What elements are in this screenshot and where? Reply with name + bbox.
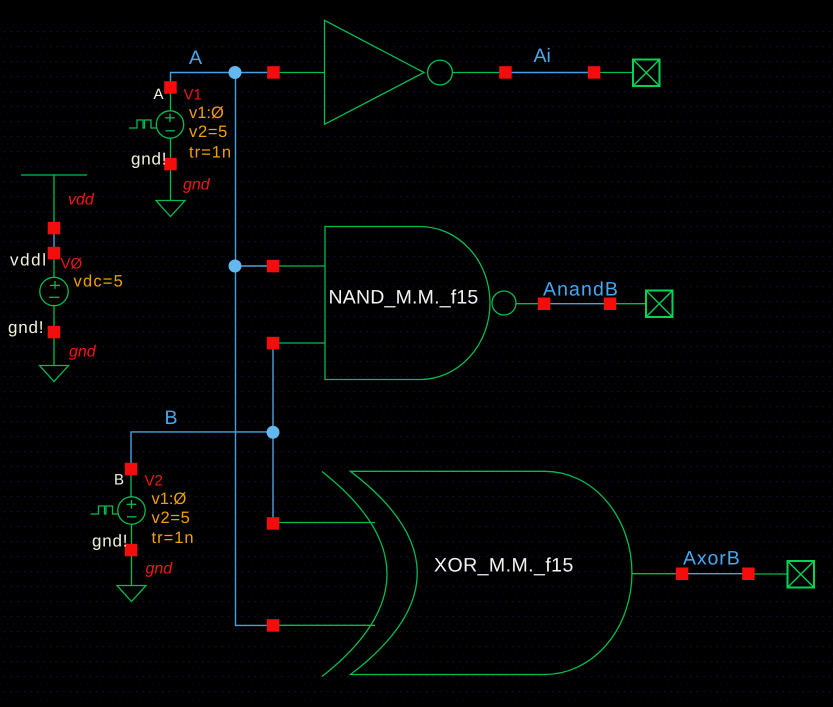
svg-text:V2: V2 — [145, 473, 163, 490]
pin symbol AxorB (square with X) — [788, 561, 815, 588]
pin red square inverter output — [499, 66, 512, 79]
pin symbol AnandB (square with X) — [646, 291, 673, 318]
voltage source V0 vdc — [40, 259, 68, 366]
svg-text:tr=1n: tr=1n — [152, 529, 195, 547]
vdd supply symbol — [21, 175, 87, 222]
NAND output stub — [516, 303, 544, 305]
pin red square NAND input bottom — [267, 337, 280, 350]
svg-text:V1: V1 — [184, 87, 202, 104]
svg-text:AxorB: AxorB — [683, 548, 741, 570]
voltage source V2 vpulse — [91, 475, 146, 586]
wire A vertical trunk — [236, 73, 274, 626]
ground symbol below V1 — [156, 201, 185, 217]
inverter U-inv input stub — [273, 72, 325, 74]
pin red square NAND input top — [267, 260, 280, 273]
svg-text:vddl: vddl — [10, 251, 48, 270]
wire AnandB net — [544, 303, 610, 305]
svg-text:gnd: gnd — [69, 344, 97, 361]
wire vddl — [53, 228, 55, 253]
ground symbol below V2 — [117, 586, 146, 602]
XOR output stub — [632, 573, 682, 575]
XOR gate XOR_M.M._f15 input stubs — [273, 523, 375, 626]
svg-text:gnd: gnd — [183, 177, 211, 194]
pin red square V2 minus (gnd!) — [125, 544, 138, 557]
XOR back arc — [322, 472, 387, 677]
wire A net horizontal — [171, 73, 274, 88]
svg-text:AnandB: AnandB — [543, 279, 619, 301]
svg-text:NAND_M.M._f15: NAND_M.M._f15 — [329, 287, 479, 309]
wire Ai net — [506, 72, 595, 74]
svg-text:A: A — [189, 47, 202, 69]
pin red square XOR input bottom — [267, 619, 280, 632]
svg-text:v1:Ø: v1:Ø — [189, 104, 224, 122]
svg-text:VØ: VØ — [61, 256, 83, 273]
pin red square inverter input — [267, 66, 280, 79]
pin red square XOR input top — [267, 517, 280, 530]
wire AxorB net — [682, 573, 749, 575]
svg-text:v1:Ø: v1:Ø — [152, 490, 187, 508]
wire A to NAND top input — [236, 265, 274, 267]
pin symbol Ai (square with X) — [633, 60, 660, 87]
pin red square V0 minus (gnd!) — [48, 326, 61, 339]
pin red square V1 minus (gnd!) — [164, 158, 177, 171]
wire stub AnandB to pin — [610, 303, 646, 305]
svg-text:v2=5: v2=5 — [152, 509, 191, 527]
svg-text:v2=5: v2=5 — [189, 123, 228, 141]
inverter triangle — [325, 20, 425, 124]
svg-text:gnd!: gnd! — [92, 532, 128, 551]
svg-text:gnd!: gnd! — [8, 318, 44, 337]
svg-text:gnd!: gnd! — [131, 150, 167, 169]
svg-text:gnd: gnd — [146, 561, 174, 578]
svg-text:vdd: vdd — [68, 192, 95, 209]
pin red square V0 plus — [48, 247, 61, 259]
wire stub Ai to pin — [594, 72, 633, 74]
svg-text:B: B — [114, 472, 124, 489]
svg-text:XOR_M.M._f15: XOR_M.M._f15 — [434, 555, 574, 577]
pin red square V2 plus (B) — [125, 463, 138, 476]
NAND bubble — [492, 291, 516, 315]
voltage source V1 vpulse — [129, 94, 184, 201]
wire stub AxorB to pin — [749, 573, 788, 575]
pin red square XOR output — [676, 568, 689, 581]
ground symbol below V0 — [40, 366, 69, 382]
NAND gate NAND_M.M._f15 input stubs — [273, 266, 325, 343]
NAND gate body — [325, 227, 490, 380]
svg-text:B: B — [165, 407, 178, 429]
pin red square V0 top (vdd) — [48, 222, 61, 235]
svg-text:Ai: Ai — [534, 45, 551, 67]
pin red square NAND output — [538, 298, 551, 311]
wire NAND bottom input to B net and XOR top input — [272, 343, 274, 523]
pin red square V1 plus (A) — [164, 81, 177, 94]
XOR gate body — [351, 471, 632, 674]
inverter bubble — [428, 60, 453, 85]
node NAND top input junction dot — [229, 260, 242, 273]
pin red square AnandB pin — [604, 298, 617, 311]
pin red square AxorB pin — [742, 568, 755, 581]
inverter output stub — [452, 72, 505, 74]
svg-text:tr=1n: tr=1n — [189, 144, 232, 162]
node B junction dot — [267, 426, 280, 439]
node A junction dot — [229, 66, 242, 79]
pin red square Ai pin — [588, 66, 601, 79]
svg-text:vdc=5: vdc=5 — [74, 273, 125, 291]
wire B net from V2 — [131, 432, 273, 469]
svg-text:A: A — [154, 86, 164, 103]
